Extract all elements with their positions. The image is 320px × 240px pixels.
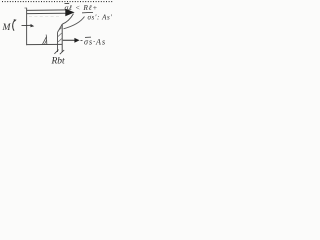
- svg-text:σℓ < Rℓ+: σℓ < Rℓ+: [65, 3, 99, 12]
- moment arc arrow: [13, 20, 15, 31]
- faint neutral axis dashes: [29, 15, 60, 17]
- tension diagram diagonal: [58, 24, 63, 32]
- curvilinear compression boundary: [62, 14, 73, 25]
- hatch in tension block: [58, 28, 62, 43]
- axis cross with small arrow: [22, 24, 32, 26]
- bottom edge line: [27, 43, 63, 45]
- small tick top of section line: [25, 7, 28, 9]
- dotted top edge line: [2, 1, 113, 3]
- cut face vertical line: [61, 24, 63, 52]
- hand-drawn stress diagram sketch: [0, 0, 113, 67]
- tension force arrow sigma-s As: [63, 39, 75, 41]
- svg-text:σs′: As′: σs′: As′: [88, 14, 113, 22]
- compression resultant arrowhead: [65, 9, 74, 17]
- dimension ticks under bottom: [54, 50, 58, 54]
- svg-text:M: M: [2, 23, 12, 33]
- leader curve to sigma-s' label: [64, 17, 85, 29]
- svg-text:σs·As: σs·As: [84, 38, 106, 47]
- small crack triangle: [43, 37, 47, 45]
- top stress line upper: [27, 9, 70, 12]
- svg-text:Rbt: Rbt: [51, 57, 66, 67]
- section vertical line: [26, 8, 28, 45]
- tension plateau vertical: [57, 32, 59, 52]
- top stress line lower: [27, 12, 67, 14]
